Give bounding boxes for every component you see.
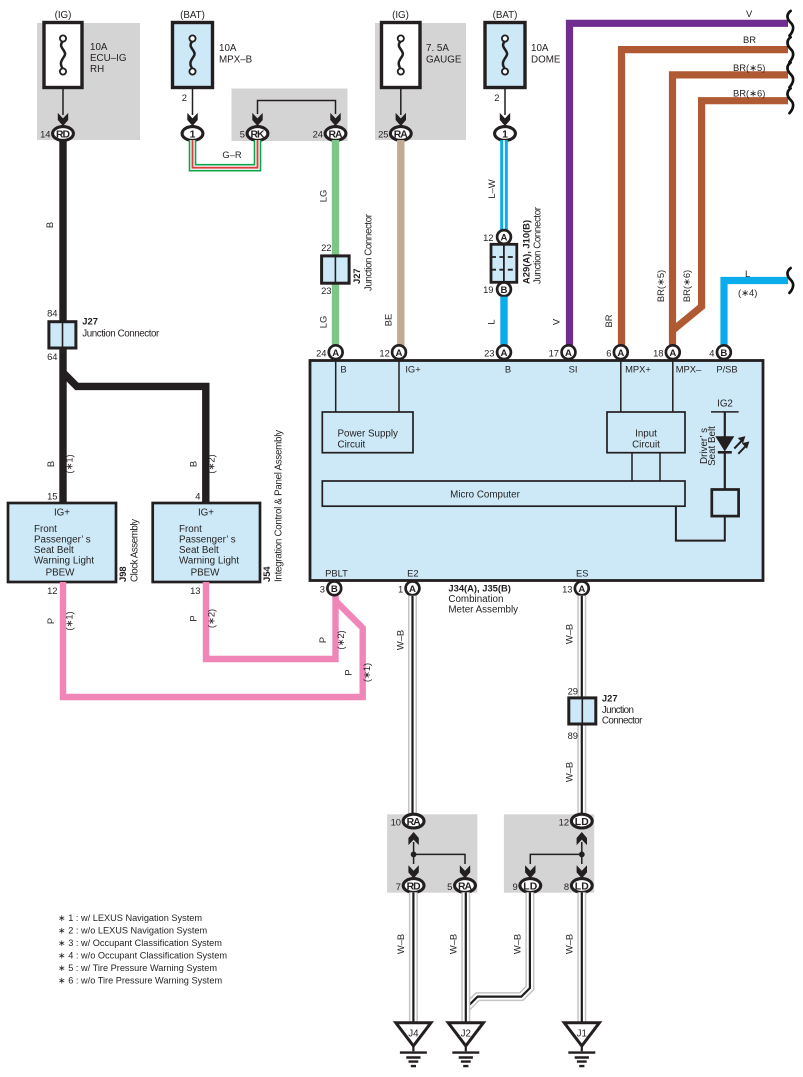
- svg-text:Junction Connector: Junction Connector: [533, 206, 544, 284]
- svg-text:A: A: [501, 233, 508, 244]
- svg-text:BR(∗5): BR(∗5): [733, 62, 765, 73]
- svg-text:∗ 3 : w/ Occupant Classificati: ∗ 3 : w/ Occupant Classification System: [58, 938, 222, 948]
- connector 12 LD: [559, 814, 593, 828]
- connector 25 RA: [378, 127, 411, 141]
- svg-text:15: 15: [47, 491, 57, 502]
- arrow into 1: [187, 113, 197, 126]
- J98 Clock Assembly: Front Passenger's Seat Belt Warning Light: [8, 503, 141, 582]
- svg-text:Circuit: Circuit: [338, 440, 366, 451]
- wire W-B 5 RA to ground J2: [447, 892, 466, 1022]
- arrow up into 12 LD: [577, 832, 587, 845]
- node 13 A: [562, 581, 589, 595]
- break squiggle BR(*5): [787, 63, 793, 88]
- ground J1: [564, 1023, 599, 1066]
- node 17 A: [549, 345, 576, 359]
- svg-text:P: P: [45, 618, 56, 624]
- pin labels bottom row: [325, 568, 588, 579]
- svg-text:PBLT: PBLT: [325, 568, 348, 579]
- node 6 A: [606, 345, 627, 359]
- J54 Integration Control & Panel Assembly: Front Passenger's Seat Belt Warning Light: [153, 430, 285, 582]
- svg-text:B: B: [505, 364, 511, 375]
- junction connector J27 (84/64): [47, 308, 160, 362]
- svg-text:A: A: [396, 348, 403, 359]
- svg-text:(∗1): (∗1): [63, 611, 74, 630]
- svg-text:Input: Input: [635, 429, 657, 440]
- svg-text:J1: J1: [577, 1029, 587, 1040]
- svg-text:A: A: [578, 584, 585, 595]
- wire BR(*6): [673, 88, 789, 331]
- svg-text:MPX+: MPX+: [625, 364, 651, 375]
- connector 19 B: [483, 282, 511, 296]
- svg-text:Passenger’ s: Passenger’ s: [179, 535, 236, 546]
- svg-text:BE: BE: [383, 314, 394, 327]
- svg-text:LD: LD: [575, 881, 589, 892]
- svg-text:14: 14: [40, 129, 50, 140]
- svg-text:Warning Light: Warning Light: [179, 556, 239, 567]
- fuse F2 10A MPX-B (BAT): [173, 10, 253, 88]
- svg-text:5: 5: [447, 881, 452, 892]
- LED driver's seat belt warning: [716, 436, 749, 454]
- svg-text:J4: J4: [408, 1029, 419, 1040]
- arrow into 9 LD: [525, 865, 535, 878]
- svg-text:A: A: [501, 348, 508, 359]
- wire W-B 9 LD joining J2: [466, 892, 530, 1008]
- svg-text:2: 2: [182, 92, 187, 103]
- node 1 A: [398, 581, 419, 595]
- wire BR(*5): [655, 62, 788, 352]
- connector 10 RA: [391, 814, 424, 828]
- arrow into RA: [330, 113, 340, 126]
- svg-text:Combination: Combination: [448, 594, 503, 605]
- junction block background (RK/RA): [232, 89, 348, 142]
- svg-text:A: A: [409, 584, 416, 595]
- svg-text:P: P: [343, 669, 354, 675]
- svg-text:J27: J27: [82, 316, 98, 327]
- svg-text:J34(A), J35(B): J34(A), J35(B): [448, 583, 511, 594]
- wire W-B from ES to 12 LD: [564, 596, 582, 815]
- svg-text:12: 12: [483, 232, 493, 243]
- svg-text:19: 19: [483, 284, 493, 295]
- junction connector J27 (29/89): [568, 686, 644, 742]
- svg-text:10A: 10A: [531, 43, 549, 54]
- wire P (*1) from PBLT to J98 pin 12: [63, 582, 363, 697]
- svg-text:4: 4: [195, 491, 200, 502]
- svg-text:89: 89: [568, 730, 578, 741]
- svg-text:(∗1): (∗1): [361, 663, 372, 682]
- wire fuse F1 to connector: [62, 88, 64, 116]
- svg-text:1: 1: [190, 129, 196, 140]
- svg-text:5: 5: [240, 129, 245, 140]
- wire L (*4): [724, 268, 788, 352]
- connector 1 (oval): [182, 127, 203, 141]
- svg-text:RA: RA: [407, 817, 421, 828]
- svg-text:3: 3: [320, 584, 325, 595]
- wire W-B from E2 to 10 RA: [395, 596, 413, 815]
- svg-text:Power Supply: Power Supply: [338, 429, 399, 440]
- svg-text:Connector: Connector: [602, 716, 643, 727]
- node 3 B: [320, 581, 341, 595]
- internal box (resistor): [712, 490, 739, 517]
- svg-text:(∗2): (∗2): [206, 609, 217, 628]
- svg-text:∗ 1 : w/ LEXUS Navigation Syst: ∗ 1 : w/ LEXUS Navigation System: [58, 913, 202, 923]
- wire L from 19 B to meter pin 23: [500, 297, 507, 352]
- svg-text:J2: J2: [461, 1029, 471, 1040]
- svg-text:(∗2): (∗2): [335, 630, 346, 649]
- svg-text:W–B: W–B: [395, 630, 406, 650]
- svg-text:LD: LD: [523, 881, 537, 892]
- connector 12 A: [483, 230, 511, 244]
- wire BR: [603, 34, 788, 352]
- svg-text:B: B: [45, 461, 56, 467]
- svg-text:G–R: G–R: [222, 149, 242, 160]
- svg-text:9: 9: [512, 881, 517, 892]
- svg-text:Front: Front: [179, 524, 202, 535]
- svg-text:Clock Assembly: Clock Assembly: [130, 519, 141, 582]
- svg-text:L: L: [486, 319, 497, 324]
- svg-text:22: 22: [321, 242, 331, 253]
- relay block background right: [504, 814, 594, 892]
- internal wires B / IG+ to power supply: [336, 361, 399, 413]
- ground J4: [396, 1023, 431, 1066]
- svg-text:IG+: IG+: [198, 508, 214, 519]
- wire L-W from connector 1 to junction 12 A: [486, 140, 504, 231]
- svg-text:V: V: [551, 318, 562, 325]
- svg-text:BR(∗6): BR(∗6): [733, 88, 765, 99]
- svg-text:A: A: [669, 348, 676, 359]
- svg-text:13: 13: [190, 585, 200, 596]
- svg-text:B: B: [44, 222, 55, 228]
- svg-text:L–W: L–W: [486, 179, 497, 198]
- svg-text:Integration Control & Panel As: Integration Control & Panel Assembly: [274, 430, 285, 582]
- svg-text:PBEW: PBEW: [46, 568, 76, 579]
- svg-text:18: 18: [653, 348, 663, 359]
- connector 24 RA: [313, 127, 346, 141]
- svg-text:64: 64: [47, 351, 57, 362]
- svg-text:2: 2: [494, 92, 499, 103]
- svg-text:B: B: [340, 364, 346, 375]
- svg-text:(∗1): (∗1): [63, 454, 74, 473]
- wire BE from 25 RA to meter pin 12: [397, 140, 404, 352]
- svg-text:IG2: IG2: [717, 399, 733, 410]
- arrow into RD: [58, 113, 68, 126]
- svg-text:10: 10: [391, 817, 401, 828]
- fuse block background (IG) ECU-IG: [37, 23, 140, 140]
- svg-text:(IG): (IG): [55, 10, 72, 21]
- svg-text:Front: Front: [34, 524, 57, 535]
- svg-text:MPX–B: MPX–B: [219, 55, 253, 66]
- svg-text:SI: SI: [569, 364, 578, 375]
- connector 7 RD: [396, 879, 424, 893]
- svg-text:E2: E2: [407, 568, 418, 579]
- svg-text:MPX–: MPX–: [676, 364, 702, 375]
- svg-text:RA: RA: [458, 881, 472, 892]
- svg-text:84: 84: [47, 308, 57, 319]
- svg-text:BR: BR: [743, 34, 756, 45]
- svg-text:IG+: IG+: [54, 508, 70, 519]
- wire B branch to J54: [63, 373, 206, 504]
- svg-text:J27: J27: [602, 693, 618, 704]
- svg-text:23: 23: [321, 285, 331, 296]
- combination meter assembly J34(A) J35(B): [310, 361, 763, 581]
- svg-text:RA: RA: [329, 129, 343, 140]
- svg-text:(BAT): (BAT): [493, 10, 518, 21]
- ground J2: [448, 1023, 483, 1066]
- svg-text:DOME: DOME: [531, 55, 561, 66]
- bracket wire between 5 RK and 24 RA: [258, 101, 336, 115]
- connector 8 LD: [564, 879, 592, 893]
- connector 9 LD: [512, 879, 540, 893]
- svg-text:7. 5A: 7. 5A: [426, 43, 449, 54]
- svg-text:12: 12: [379, 348, 389, 359]
- svg-text:J54: J54: [261, 566, 272, 582]
- svg-text:W–B: W–B: [564, 624, 575, 644]
- svg-text:10A: 10A: [219, 43, 237, 54]
- internal wires MPX+ / MPX- to input circuit: [621, 361, 673, 413]
- svg-text:Seat Belt: Seat Belt: [707, 426, 718, 466]
- svg-text:Seat Belt: Seat Belt: [34, 545, 74, 556]
- wire W-B 8 LD to ground J1: [564, 892, 582, 1022]
- svg-text:12: 12: [47, 585, 57, 596]
- arrow into RA: [396, 113, 406, 126]
- svg-text:IG+: IG+: [405, 364, 421, 375]
- svg-text:(IG): (IG): [392, 10, 409, 21]
- connector 1 (oval): [495, 127, 516, 141]
- relay block background left: [387, 814, 477, 892]
- svg-text:LD: LD: [575, 817, 589, 828]
- svg-text:B: B: [187, 461, 198, 467]
- svg-text:B: B: [331, 584, 338, 595]
- svg-text:Passenger’ s: Passenger’ s: [34, 535, 91, 546]
- arrow into 5 RA: [460, 865, 470, 878]
- svg-text:W–B: W–B: [564, 762, 575, 782]
- arrow into 1: [500, 113, 510, 126]
- junction connector J27 (22/89) on LG wire: [321, 213, 374, 296]
- svg-text:Junction Connector: Junction Connector: [364, 213, 375, 291]
- wire G-R: [193, 140, 258, 168]
- svg-text:∗ 5 : w/ Tire Pressure Warning: ∗ 5 : w/ Tire Pressure Warning System: [58, 963, 217, 973]
- connector 5 RA: [447, 879, 475, 893]
- svg-text:LG: LG: [318, 316, 329, 329]
- break squiggle V: [787, 11, 793, 36]
- break squiggle BR(*6): [787, 88, 793, 113]
- svg-text:W–B: W–B: [564, 934, 575, 954]
- svg-text:P/SB: P/SB: [716, 364, 737, 375]
- svg-text:12: 12: [559, 817, 569, 828]
- svg-text:J98: J98: [117, 566, 128, 582]
- svg-text:W–B: W–B: [512, 934, 523, 954]
- svg-text:W–B: W–B: [395, 934, 406, 954]
- fuse F1 10A ECU-IG RH: [44, 10, 126, 88]
- wire V: [551, 8, 789, 352]
- svg-text:29: 29: [568, 686, 578, 697]
- wire split left: [414, 842, 465, 864]
- arrow into 7 RD: [408, 865, 418, 878]
- svg-text:BR(∗5): BR(∗5): [655, 270, 666, 302]
- svg-text:RK: RK: [251, 129, 265, 140]
- connector 5 RK: [240, 127, 268, 141]
- svg-text:∗ 6 : w/o Tire Pressure Warnin: ∗ 6 : w/o Tire Pressure Warning System: [58, 976, 222, 986]
- svg-text:Meter Assembly: Meter Assembly: [448, 605, 518, 616]
- svg-text:(∗2): (∗2): [206, 454, 217, 473]
- svg-text:ECU–IG: ECU–IG: [90, 53, 126, 64]
- wire fuse F2 to connector 1: [192, 88, 194, 116]
- svg-text:A: A: [565, 348, 572, 359]
- svg-text:RD: RD: [407, 881, 421, 892]
- svg-text:A: A: [332, 348, 339, 359]
- arrow into 8 LD: [577, 865, 587, 878]
- svg-text:Circuit: Circuit: [632, 440, 660, 451]
- svg-text:B: B: [501, 285, 508, 296]
- svg-text:P: P: [187, 615, 198, 621]
- wire P (*2) from PBLT 3 B to J54 pin 13: [206, 582, 336, 659]
- junction connector A29(A), J10(B): [491, 206, 544, 284]
- wires input circuit to micro computer: [632, 453, 660, 481]
- arrow up into 10 RA: [408, 832, 418, 845]
- wire resistor to micro computer: [676, 506, 725, 540]
- node 18 A: [653, 345, 680, 359]
- svg-text:W–B: W–B: [447, 934, 458, 954]
- svg-text:ES: ES: [576, 568, 589, 579]
- pin labels top row: [340, 364, 737, 375]
- svg-text:∗ 2 : w/o LEXUS Navigation Sys: ∗ 2 : w/o LEXUS Navigation System: [58, 926, 207, 936]
- svg-text:A: A: [617, 348, 624, 359]
- svg-text:B: B: [720, 348, 727, 359]
- input circuit: [607, 412, 685, 453]
- wire LG from 24 RA to meter pin 24: [332, 140, 339, 352]
- svg-text:P: P: [317, 637, 328, 643]
- micro computer: [322, 481, 685, 506]
- arrow into RK: [252, 113, 262, 126]
- svg-text:24: 24: [313, 129, 323, 140]
- svg-text:A29(A), J10(B): A29(A), J10(B): [521, 220, 532, 284]
- fuse F3 7.5A GAUGE: [382, 10, 462, 88]
- svg-text:1: 1: [502, 129, 508, 140]
- svg-text:Junction Connector: Junction Connector: [82, 329, 160, 340]
- wire split right: [530, 842, 582, 864]
- svg-text:23: 23: [484, 348, 494, 359]
- svg-text:10A: 10A: [90, 42, 108, 53]
- node 12 A: [379, 345, 406, 359]
- svg-text:1: 1: [398, 584, 403, 595]
- node 24 A: [316, 345, 343, 359]
- svg-text:7: 7: [396, 881, 401, 892]
- power supply circuit: [322, 412, 413, 453]
- svg-text:Junction: Junction: [602, 705, 634, 716]
- svg-text:GAUGE: GAUGE: [426, 55, 462, 66]
- svg-text:17: 17: [549, 348, 559, 359]
- fuse F4 10A DOME (BAT): [485, 10, 561, 88]
- svg-text:BR(∗6): BR(∗6): [681, 270, 692, 302]
- wire LED to resistor box: [724, 452, 726, 489]
- svg-text:(BAT): (BAT): [180, 10, 205, 21]
- wire fuse F4 to connector 1: [504, 88, 506, 116]
- svg-text:Seat Belt: Seat Belt: [179, 545, 219, 556]
- wire fuse F3 to connector: [400, 88, 402, 116]
- node 4 B: [709, 345, 731, 359]
- svg-text:PBEW: PBEW: [191, 568, 221, 579]
- svg-text:8: 8: [564, 881, 569, 892]
- break squiggle BR: [787, 37, 793, 62]
- assembly caption: [448, 583, 518, 616]
- svg-text:25: 25: [378, 129, 388, 140]
- svg-text:24: 24: [316, 348, 326, 359]
- svg-text:RH: RH: [90, 64, 104, 75]
- junction dot: [579, 852, 585, 858]
- svg-text:Micro Computer: Micro Computer: [450, 490, 520, 501]
- svg-text:BR: BR: [603, 314, 614, 327]
- legend notes: [58, 913, 227, 986]
- svg-text:∗ 4 : w/o Occupant Classificat: ∗ 4 : w/o Occupant Classification System: [58, 951, 227, 961]
- svg-text:RA: RA: [394, 129, 408, 140]
- fuse block background (IG) GAUGE: [375, 23, 466, 140]
- svg-text:Warning Light: Warning Light: [34, 556, 94, 567]
- node 23 A: [484, 345, 511, 359]
- node IG2: [711, 399, 739, 438]
- svg-text:L: L: [745, 268, 750, 279]
- connector 14 RD: [40, 127, 73, 141]
- svg-text:RD: RD: [56, 129, 70, 140]
- break squiggle L: [787, 268, 793, 293]
- wire B from 14 RD down to J98: [59, 140, 66, 503]
- svg-text:4: 4: [709, 348, 714, 359]
- svg-text:V: V: [746, 8, 753, 19]
- wire W-B 7 RD to ground J4: [395, 892, 413, 1022]
- svg-text:LG: LG: [318, 190, 329, 203]
- svg-text:6: 6: [606, 348, 611, 359]
- svg-text:J27: J27: [351, 268, 362, 284]
- svg-text:(∗4): (∗4): [738, 287, 757, 298]
- junction dot: [411, 852, 417, 858]
- svg-text:13: 13: [562, 584, 572, 595]
